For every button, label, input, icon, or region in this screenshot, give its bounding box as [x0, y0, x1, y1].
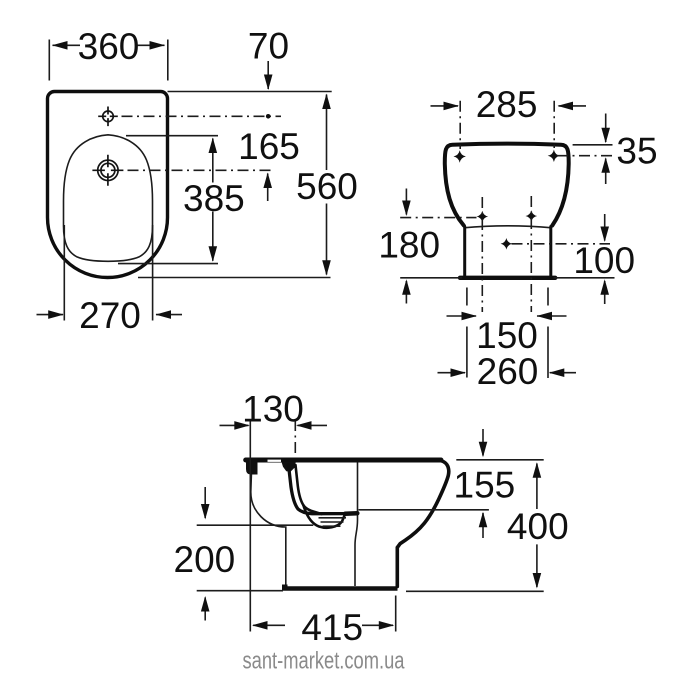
svg-text:150: 150	[476, 315, 538, 356]
svg-text:200: 200	[174, 539, 236, 580]
svg-text:385: 385	[183, 178, 245, 219]
svg-text:100: 100	[573, 240, 635, 281]
svg-text:260: 260	[477, 351, 539, 392]
svg-text:165: 165	[238, 126, 300, 167]
svg-text:360: 360	[78, 26, 140, 67]
svg-text:155: 155	[454, 465, 516, 506]
svg-text:285: 285	[476, 84, 538, 125]
svg-text:270: 270	[79, 295, 141, 336]
svg-text:400: 400	[507, 506, 569, 547]
svg-text:415: 415	[301, 607, 363, 648]
svg-text:70: 70	[248, 26, 289, 67]
svg-text:180: 180	[378, 225, 440, 266]
svg-text:35: 35	[616, 130, 657, 171]
svg-text:sant-market.com.ua: sant-market.com.ua	[243, 648, 405, 675]
svg-text:130: 130	[242, 389, 304, 430]
svg-text:560: 560	[296, 166, 358, 207]
